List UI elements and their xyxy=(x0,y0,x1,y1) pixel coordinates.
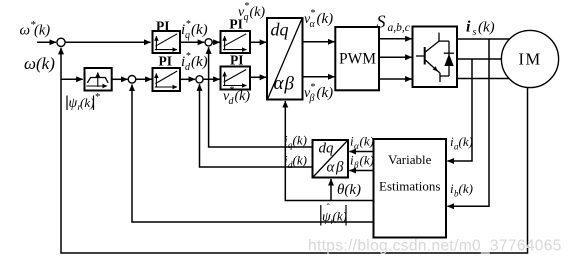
wire S4 to PI4 xyxy=(203,78,220,80)
wire PI2 to S4 xyxy=(180,78,195,80)
svg-text:(k): (k) xyxy=(80,95,94,110)
svg-text:(k): (k) xyxy=(333,209,347,224)
label flux estimate xyxy=(320,205,322,226)
svg-text:*: * xyxy=(310,8,315,19)
summing junction S1 xyxy=(57,38,65,46)
svg-text:*: * xyxy=(229,85,234,96)
svg-text:ψ: ψ xyxy=(69,96,78,111)
svg-text:α: α xyxy=(274,73,285,94)
wire iq feedback dq2 to S3 xyxy=(209,47,313,147)
svg-text:q: q xyxy=(244,12,249,23)
svg-text:dq: dq xyxy=(319,141,335,157)
svg-text:Variable: Variable xyxy=(388,152,432,167)
wire inverter to IM phase c xyxy=(457,78,511,80)
svg-text:*: * xyxy=(310,82,315,93)
svg-text:θ(k): θ(k) xyxy=(337,182,361,198)
block PI1 xyxy=(153,31,181,53)
svg-text:β: β xyxy=(353,160,359,170)
svg-text:ω(k): ω(k) xyxy=(24,54,55,73)
svg-text:(k): (k) xyxy=(250,5,266,20)
wire PI4 to dq1 xyxy=(250,76,266,78)
transistor emitter with arrow xyxy=(425,60,438,72)
wire omega* input xyxy=(37,41,56,43)
motor IM xyxy=(501,30,558,87)
svg-text:(k): (k) xyxy=(293,153,307,168)
wire ib current tap xyxy=(447,39,489,206)
wire sat to S2 xyxy=(112,78,128,80)
wire inverter to IM phase a xyxy=(457,38,512,40)
svg-text:q: q xyxy=(185,30,190,41)
svg-text:dq: dq xyxy=(271,20,289,40)
svg-text:α: α xyxy=(354,141,359,151)
wire S2 to PI2 xyxy=(136,78,152,80)
svg-text:β: β xyxy=(284,74,295,95)
svg-text:PI: PI xyxy=(230,53,244,68)
block saturation (flux reference) xyxy=(85,68,112,91)
wire speed feedback from IM xyxy=(61,48,528,253)
svg-text:IM: IM xyxy=(519,50,542,69)
wire dq1 to PWM top xyxy=(303,41,335,43)
wire S3 to PI3 xyxy=(212,41,220,43)
wire PI1 to S3 xyxy=(180,41,204,43)
transistor base bar xyxy=(424,47,426,65)
summing junction S4 id xyxy=(196,76,203,83)
wire ia current tap xyxy=(447,59,472,161)
wire flux feedback psi xyxy=(132,85,374,223)
block PI2 xyxy=(153,68,181,91)
svg-text:(k): (k) xyxy=(235,89,251,104)
svg-text:(k): (k) xyxy=(459,134,473,149)
block dq2 current transform xyxy=(313,140,349,178)
wire PWM to inverter c xyxy=(379,78,412,80)
svg-text:β: β xyxy=(335,160,344,176)
wire S1 to PI1 xyxy=(65,41,150,43)
wire PWM to inverter b xyxy=(379,56,412,58)
svg-text:β: β xyxy=(309,93,315,104)
svg-text:(k): (k) xyxy=(360,134,374,149)
svg-text:https://blog.csdn.net/m0_37764: https://blog.csdn.net/m0_37764065 xyxy=(308,238,562,255)
block PWM xyxy=(335,27,379,90)
freewheel diode xyxy=(448,41,450,76)
block inverter xyxy=(413,27,458,88)
block dq1 alphabeta transform xyxy=(267,18,303,100)
svg-text:(k): (k) xyxy=(317,11,334,27)
transistor base lead xyxy=(416,55,425,57)
svg-text:(k): (k) xyxy=(459,181,473,196)
svg-text:(k): (k) xyxy=(191,54,208,70)
wire inverter to IM phase b xyxy=(457,58,504,60)
svg-text:a,b,c: a,b,c xyxy=(388,22,410,34)
wire i-beta VE to dq2 xyxy=(349,170,373,172)
wire PWM to inverter a xyxy=(379,38,412,40)
svg-text:(k): (k) xyxy=(293,133,307,148)
wire dq1 to PWM bottom xyxy=(303,76,335,78)
svg-text:s: s xyxy=(473,27,477,38)
wire i-alpha VE to dq2 xyxy=(349,151,373,153)
svg-text:S: S xyxy=(377,12,386,32)
transistor collector xyxy=(425,41,439,52)
summing junction S3 iq xyxy=(205,39,212,46)
wire theta branch to dq2 xyxy=(330,179,332,201)
svg-text:ω: ω xyxy=(20,23,31,39)
svg-text:α: α xyxy=(327,160,336,176)
wire id feedback dq2 to S4 xyxy=(200,84,313,167)
svg-text:(k): (k) xyxy=(478,20,495,36)
svg-text:(k): (k) xyxy=(34,23,50,39)
transistor top lead xyxy=(438,33,440,42)
svg-text:(k): (k) xyxy=(191,22,208,38)
svg-text:PWM: PWM xyxy=(339,50,376,67)
svg-text:*: * xyxy=(186,19,191,30)
label flux reference xyxy=(66,96,68,111)
svg-text:(k): (k) xyxy=(317,85,334,101)
svg-text:*: * xyxy=(95,91,101,103)
svg-text:PI: PI xyxy=(159,54,173,69)
svg-text:PI: PI xyxy=(156,19,170,34)
wire theta net to dq1 xyxy=(285,101,373,201)
svg-text:i: i xyxy=(466,19,471,36)
svg-text:*: * xyxy=(244,1,249,12)
block variable estimations xyxy=(374,139,447,238)
svg-text:(k): (k) xyxy=(360,153,374,168)
block PI4 xyxy=(221,67,251,90)
block PI3 xyxy=(221,31,251,53)
wire PI3 to dq1 xyxy=(250,41,266,43)
wire tap to saturation block xyxy=(61,78,83,80)
svg-text:α: α xyxy=(310,19,316,30)
svg-text:*: * xyxy=(186,51,191,62)
summing junction S2 flux xyxy=(128,76,136,84)
svg-text:Estimations: Estimations xyxy=(379,179,440,194)
